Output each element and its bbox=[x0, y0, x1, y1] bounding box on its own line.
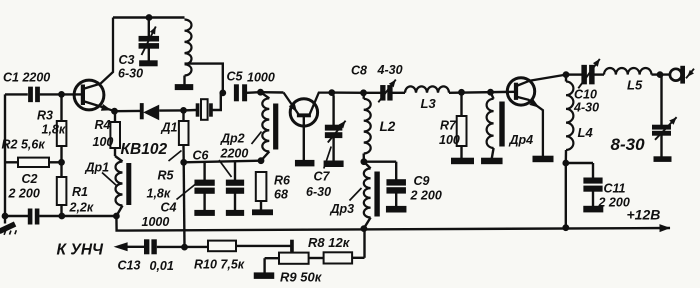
svg-text:R1: R1 bbox=[72, 185, 88, 199]
svg-text:2 200: 2 200 bbox=[598, 196, 630, 210]
svg-text:С7: С7 bbox=[314, 170, 331, 184]
svg-text:0,01: 0,01 bbox=[150, 259, 174, 273]
svg-text:С13: С13 bbox=[118, 259, 141, 273]
svg-text:R4: R4 bbox=[95, 118, 111, 132]
svg-text:Др3: Др3 bbox=[330, 202, 355, 216]
svg-text:С9: С9 bbox=[414, 174, 430, 188]
svg-text:С1 2200: С1 2200 bbox=[3, 71, 50, 85]
svg-text:100: 100 bbox=[93, 135, 114, 149]
svg-text:R2 5,6к: R2 5,6к bbox=[2, 138, 46, 152]
svg-text:2200: 2200 bbox=[220, 147, 249, 161]
svg-text:КВ102: КВ102 bbox=[121, 141, 168, 158]
svg-text:С5: С5 bbox=[227, 70, 244, 84]
svg-text:100: 100 bbox=[439, 133, 460, 147]
svg-text:4-30: 4-30 bbox=[377, 63, 403, 77]
svg-text:1,8к: 1,8к bbox=[42, 123, 66, 137]
svg-text:R9 50к: R9 50к bbox=[280, 270, 323, 285]
svg-text:R8 12к: R8 12к bbox=[308, 235, 351, 250]
svg-text:С6: С6 bbox=[193, 149, 210, 163]
svg-text:R6: R6 bbox=[274, 174, 291, 188]
svg-text:L3: L3 bbox=[421, 96, 437, 111]
svg-text:L5: L5 bbox=[627, 78, 643, 93]
svg-text:С3: С3 bbox=[119, 53, 135, 67]
svg-text:2 200: 2 200 bbox=[8, 187, 40, 201]
svg-text:С4: С4 bbox=[161, 201, 177, 215]
svg-text:R10 7,5к: R10 7,5к bbox=[194, 258, 245, 272]
svg-text:R3: R3 bbox=[37, 109, 53, 123]
svg-text:С11: С11 bbox=[604, 182, 626, 196]
svg-text:8-30: 8-30 bbox=[611, 135, 646, 154]
svg-text:6-30: 6-30 bbox=[306, 185, 331, 199]
svg-text:4-30: 4-30 bbox=[573, 101, 599, 115]
svg-text:С10: С10 bbox=[574, 88, 597, 102]
svg-text:2,2к: 2,2к bbox=[69, 201, 94, 215]
svg-text:Д1: Д1 bbox=[161, 121, 178, 135]
svg-text:6-30: 6-30 bbox=[118, 67, 143, 81]
svg-text:R5: R5 bbox=[158, 169, 175, 183]
svg-text:1000: 1000 bbox=[247, 71, 275, 85]
svg-text:L4: L4 bbox=[578, 125, 594, 140]
svg-text:1,8к: 1,8к bbox=[147, 187, 171, 201]
svg-text:L2: L2 bbox=[380, 119, 396, 134]
svg-text:Др2: Др2 bbox=[220, 132, 245, 146]
svg-text:С2: С2 bbox=[22, 172, 38, 186]
svg-text:+12В: +12В bbox=[627, 207, 661, 223]
svg-text:2 200: 2 200 bbox=[410, 189, 442, 203]
svg-text:С8: С8 bbox=[351, 64, 367, 78]
svg-text:R7: R7 bbox=[440, 119, 457, 133]
svg-text:1000: 1000 bbox=[142, 215, 170, 229]
svg-text:К УНЧ: К УНЧ bbox=[57, 242, 105, 259]
svg-text:68: 68 bbox=[274, 188, 288, 202]
svg-text:Др4: Др4 bbox=[509, 133, 534, 147]
svg-text:Др1: Др1 bbox=[85, 161, 110, 175]
